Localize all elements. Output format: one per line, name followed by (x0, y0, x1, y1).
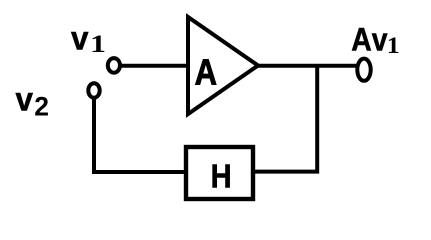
terminal v1 (108, 58, 120, 73)
wire amplifier output to Av1 terminal (256, 64, 356, 68)
svg-text:1: 1 (90, 31, 106, 58)
wire v2 terminal vertical drop (92, 98, 96, 174)
svg-text:v: v (71, 19, 89, 56)
block H (feedback network) (186, 147, 253, 199)
svg-text:H: H (211, 157, 232, 194)
terminal v2 (88, 83, 99, 97)
svg-text:v: v (16, 80, 34, 117)
svg-text:v: v (372, 21, 388, 57)
op-amp A (amplifier triangle) (188, 17, 258, 114)
svg-text:A: A (351, 21, 372, 57)
wire feedback vertical drop from output node (315, 66, 319, 174)
svg-text:1: 1 (387, 33, 400, 59)
wire v2 drop to H block input (92, 170, 186, 174)
svg-text:2: 2 (34, 92, 49, 122)
wire H block output to vertical drop (254, 170, 319, 174)
terminal Av1 (357, 59, 370, 81)
wire v1 terminal to amplifier input (120, 64, 190, 68)
svg-text:A: A (195, 51, 217, 92)
